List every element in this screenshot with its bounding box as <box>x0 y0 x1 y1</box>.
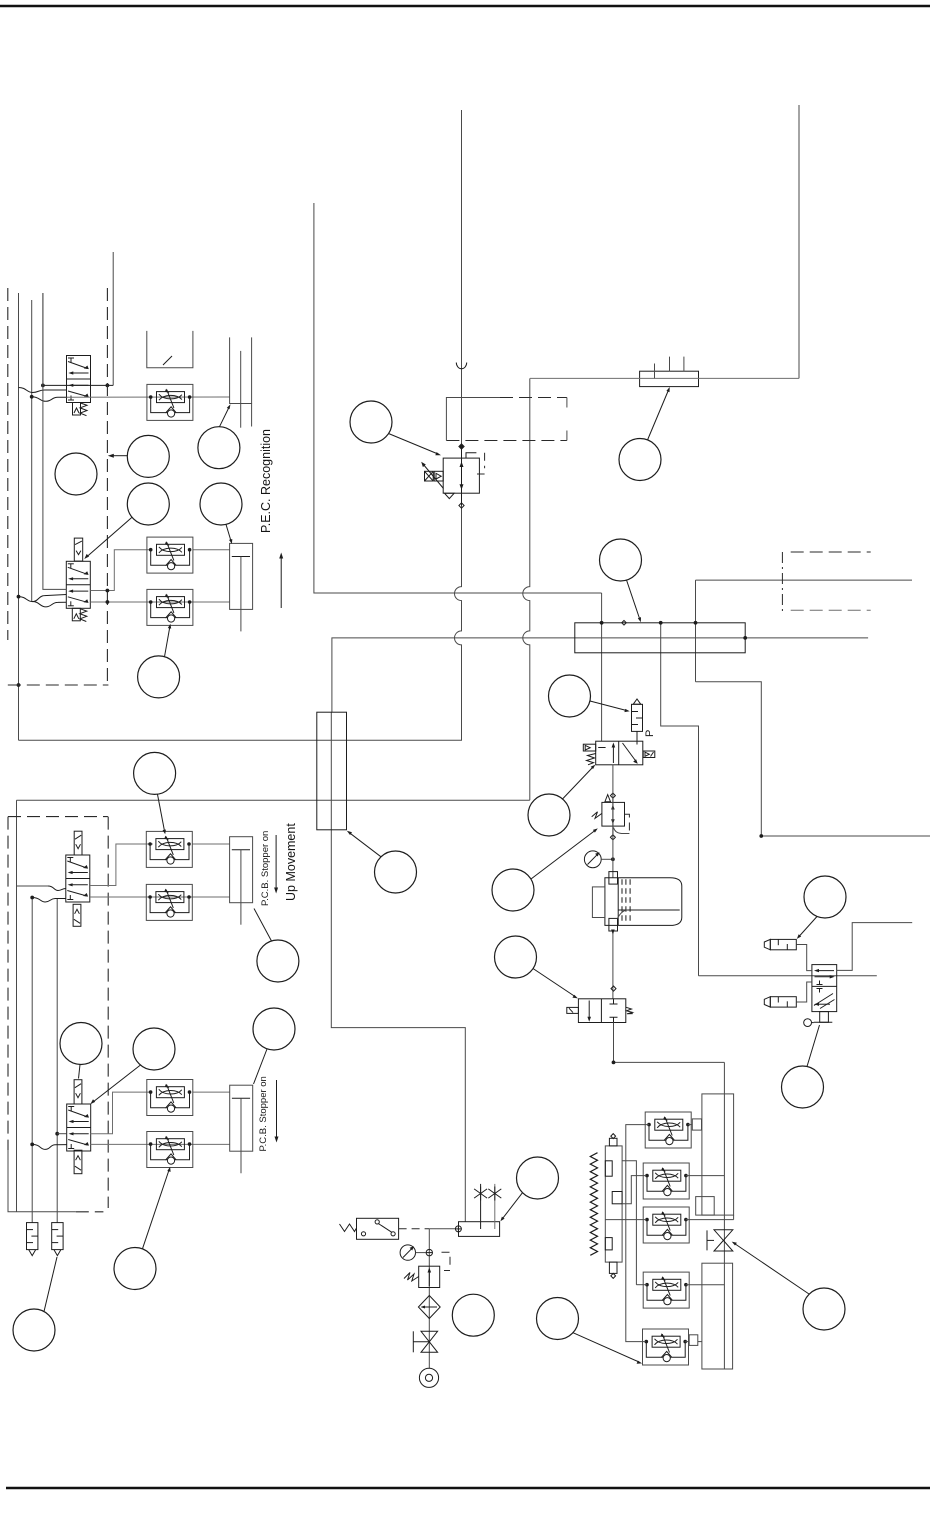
hose A4 <box>32 1144 66 1149</box>
manifold MR1 (right bank upper) <box>696 1094 734 1215</box>
bus bar TB1 (top) <box>530 357 799 387</box>
wire: bar2 vertical through x=331.3 <box>330 712 332 830</box>
cylinder A1 (open top) <box>230 337 252 427</box>
valve V6 2/2 (bottom center) <box>567 999 633 1023</box>
star mark 2 <box>488 1187 501 1201</box>
flow control F8 <box>147 1132 193 1168</box>
flow control F3 <box>147 589 193 625</box>
balloon 4 + leader <box>84 483 169 559</box>
dashed: lower-left section box x=8 <box>7 817 9 1150</box>
wire: V2 upper port to F2 elbow <box>90 550 150 591</box>
node: dot <box>612 1061 616 1065</box>
air source symbol <box>419 1368 438 1387</box>
dashed: switch sense line <box>399 1228 430 1230</box>
solid piece of lower-left dashed box <box>8 1150 76 1212</box>
node: dot on mid bus top <box>659 621 663 625</box>
node: dot <box>759 834 763 838</box>
wire: A1 right feed x=113.2 <box>112 252 114 385</box>
air service unit (filter/lubricator bowl) <box>592 872 681 931</box>
wire: P.E.C. line x=313.9 down and over to mid bus <box>314 203 602 593</box>
balloon 19 + leader <box>528 765 595 836</box>
balloon 26 + leader <box>500 1157 558 1221</box>
sensor open-box above F1 <box>147 331 193 368</box>
manifold MR2 (right bank lower) <box>702 1263 733 1369</box>
wire: left vertical x=42.9 to A1 port <box>42 293 44 385</box>
supply line through mid station <box>612 765 614 999</box>
wire: top right vertical x=799 <box>798 105 800 378</box>
valve V3 5/2 (Up Movement) <box>66 831 90 926</box>
wire: F9 right stub <box>688 1119 702 1130</box>
balloon 13 + leader <box>114 1167 171 1290</box>
balloon 12 + leader <box>253 1008 295 1084</box>
svg-text:P: P <box>644 730 656 737</box>
wire: F2 to cylinder A2 <box>193 549 230 551</box>
page bottom border rule <box>6 1487 930 1490</box>
svg-text:Up Movement: Up Movement <box>284 823 298 901</box>
node: dot hose tap A2 <box>17 595 21 599</box>
wire: top feed vertical x=461.5 <box>461 110 463 447</box>
flow control F13 <box>643 1329 689 1365</box>
wire: lower-left box edge x=16.5 <box>16 800 18 1212</box>
balloon 7 + leader <box>134 752 176 834</box>
balloon 24 + leader <box>732 1242 845 1330</box>
balloon 23 + leader <box>782 1025 824 1108</box>
node: dot A4 tap <box>55 1132 59 1136</box>
wire: V3 upper port to F5 elbow <box>90 844 153 886</box>
dashed: machine outline rect top-center <box>446 398 500 441</box>
flow control F2 <box>147 537 193 573</box>
wire: corner x=331.9 feeding lower section y=637.9 <box>332 638 868 712</box>
regulator U2 (mid station) <box>592 793 630 840</box>
flow control F6 <box>146 884 192 920</box>
wire: V6 bottom to right bank <box>614 1023 725 1063</box>
arrow: A3 direction (down) <box>274 835 278 894</box>
bus bar MB1 (middle) <box>575 621 745 653</box>
wire: unit top branch to F12 riser <box>622 1161 636 1285</box>
node: dot <box>41 384 45 388</box>
port diamond above V6 <box>611 986 616 991</box>
valve V1 5/2 (P.E.C. A) <box>67 356 91 416</box>
svg-text:P.C.B. Stopper on: P.C.B. Stopper on <box>260 831 271 906</box>
svg-text:P.C.B. Stopper on: P.C.B. Stopper on <box>258 1076 269 1151</box>
shutoff valve SV1 <box>413 1331 437 1352</box>
wire: V4 lower port through F8 to cylinder <box>91 1143 230 1145</box>
star mark 1 <box>474 1187 487 1201</box>
wire: V4 upper port to F7 elbow <box>91 1092 151 1134</box>
node: dot <box>106 384 110 388</box>
dashed: A1/A2 left boundary x=7.8 <box>7 288 9 640</box>
gauge G1 with tap <box>400 1245 432 1260</box>
balloon 21 + leader <box>495 936 578 998</box>
wire: M1 to V7 <box>796 945 812 971</box>
node: junction dot above regulator <box>460 445 464 449</box>
valve V7 manual 3/2 (right) <box>804 965 837 1027</box>
cylinder A3 <box>230 837 253 925</box>
dashed: bottom piece <box>76 1211 104 1213</box>
wire: mid bus drop x=660.7 stepping to x=698.5 <box>661 623 699 976</box>
hose A3 pair <box>32 886 66 902</box>
valve V2 5/2 (P.E.C. B) <box>66 538 90 621</box>
wire: F11 right <box>686 1219 734 1221</box>
wire: edge drop x=733.6 to F11 line <box>733 1215 735 1220</box>
balloon 10 + leader <box>60 1023 102 1079</box>
wire: regulator drop x=461.5 with hops, corner to big box bottom <box>19 506 462 741</box>
wire: F7 to cylinder A4 <box>193 1091 230 1093</box>
balloon 16 + leader <box>619 387 670 481</box>
cylinder A4 <box>230 1085 253 1173</box>
balloon 9 + leader <box>254 909 299 983</box>
wire: right bank main drop x=724.4 <box>723 1062 725 1369</box>
gauge G2 <box>584 851 614 868</box>
arrow down on supply <box>611 930 615 935</box>
valve V4 5/2 (P.C.B. Stopper) <box>67 1080 91 1174</box>
wire: vertical x=529.8 with hops over crossing lines <box>523 378 530 800</box>
wire: left bus of bank x=625.8 <box>626 1125 649 1342</box>
balloon 20 + leader <box>492 828 598 911</box>
hose A2 pair <box>19 595 67 607</box>
dashed: top edge y=816.6 <box>8 816 108 818</box>
wire: right top corner net y=580.1 <box>696 579 913 581</box>
balloon 3 + leader <box>198 404 240 469</box>
balloon 5 + leader <box>200 483 242 544</box>
silencer S2 <box>52 1223 63 1256</box>
wire: V4 upper left feed <box>57 1133 66 1135</box>
dashed: A1/A2 right boundary x=107.4 <box>106 288 108 683</box>
wire: F10 left branch <box>622 1176 646 1204</box>
flow control F1 <box>147 384 193 420</box>
wire: M2 to V7 <box>796 982 812 1002</box>
bus bar B2 (left-middle vertical manifold) <box>317 712 347 830</box>
wire: V3 lower port through F6 to cylinder <box>90 896 230 898</box>
wire: F12 line <box>636 1284 647 1286</box>
svg-text:P.E.C. Recognition: P.E.C. Recognition <box>259 429 273 533</box>
muffler M2 <box>764 997 796 1007</box>
electro-pneumatic regulator U1 (top center) <box>421 444 484 508</box>
balloon 27 <box>452 1294 494 1336</box>
balloon 2 + leader <box>108 435 170 477</box>
wire: A3 upper left feed <box>17 885 49 887</box>
muffler M1 <box>764 939 796 949</box>
wire: left vertical x=31.7 <box>31 300 33 601</box>
wire: big box bottom of lower-left section y=800.3 <box>17 799 530 801</box>
wire: F12 right to manifold <box>686 1284 725 1286</box>
hose A1 upper <box>19 388 67 402</box>
cylinder A2 <box>230 543 253 631</box>
arrow: A4 direction (down) <box>275 1080 279 1143</box>
flow control F10 <box>643 1163 689 1199</box>
balloon 18 + leader <box>549 675 630 717</box>
arrow: P.E.C. direction (up) <box>279 553 283 609</box>
node: dot right end of mid bus line <box>743 636 747 640</box>
pressure switch PS1 <box>340 1218 399 1239</box>
balloon 1 <box>55 453 97 495</box>
node: dot A4 tap low <box>30 1143 34 1147</box>
wire: left box edge x=18.5 <box>18 293 20 740</box>
valve V5 3/2 with muffler (mid) <box>583 699 655 765</box>
wire: drop from P.E.C. line into middle bus x=601.6 <box>601 593 603 741</box>
silencer S1 <box>27 1223 38 1256</box>
star manifold bar <box>455 1184 499 1236</box>
wire: bar2 drop x=331.3 to station corner <box>331 830 465 1222</box>
wire: step to x=761.3 and down to y=836 <box>696 682 930 836</box>
flow control F11 <box>643 1207 689 1243</box>
node: dot on dashed box line <box>17 683 21 687</box>
node: dot <box>106 600 110 604</box>
flow control F5 <box>146 831 192 867</box>
balloon 25 + leader <box>537 1298 643 1364</box>
wire: long line y=975.8 to right valve <box>699 975 877 977</box>
wire: V7 right port up and over <box>837 923 913 971</box>
node: dot <box>30 896 34 900</box>
flow control F9 <box>645 1112 691 1148</box>
page top border rule <box>0 5 930 7</box>
regulator U3 (station) <box>404 1252 450 1287</box>
balloon 15 + leader <box>350 401 441 455</box>
dashed: right edge x=108.2 <box>107 817 109 1208</box>
wire: A1 lower port line y=397.2 through flow control to sensor-cylinder <box>67 396 230 398</box>
node: dot on mid bus <box>600 621 604 625</box>
balloon 22 + leader <box>797 876 846 939</box>
wire: silencer2 drop x=57.2 <box>56 899 58 1223</box>
dashed: stub lines right y=552 and y=610 <box>791 551 871 553</box>
node: dot A1 hose tap <box>30 395 34 399</box>
node: dot <box>106 589 110 593</box>
wire: V2 feed from x=42.9 <box>43 293 66 589</box>
wire: silencer1 drop x=32.2 <box>31 898 33 1223</box>
balloon 17 + leader <box>600 539 642 622</box>
wire: A1 upper port line y=385.4 <box>43 384 113 386</box>
flow control F12 <box>643 1272 689 1308</box>
filter FD1 (diamond) <box>418 1296 440 1319</box>
dashed: A2 box bottom y=685 <box>8 684 109 686</box>
wire: F5 to cylinder A3 <box>192 843 229 845</box>
balloon 11 + leader <box>90 1028 175 1104</box>
balloon 8 + leader <box>347 831 417 893</box>
flow mark arc on top feed wire <box>456 363 466 369</box>
node: dot on mid bus <box>694 621 698 625</box>
spring-return stopper unit <box>590 1134 622 1279</box>
flow control F7 <box>147 1080 193 1116</box>
shutoff valve SV2 (right bank) <box>707 1230 733 1251</box>
wire: F10 right to manifold <box>686 1175 725 1177</box>
wire: F11 line left to unit <box>605 1219 646 1221</box>
wire: vertical x=695.5 through middle bus <box>695 580 697 682</box>
wire: station main line <box>429 1229 455 1369</box>
dash-dot: centerline x=782.4 <box>781 552 783 611</box>
balloon 14 + leader <box>13 1257 57 1351</box>
balloon 6 + leader <box>138 624 180 698</box>
wire: F13 right stub <box>685 1335 702 1346</box>
wire: V2 lower port through F3 to cylinder <box>90 601 229 603</box>
